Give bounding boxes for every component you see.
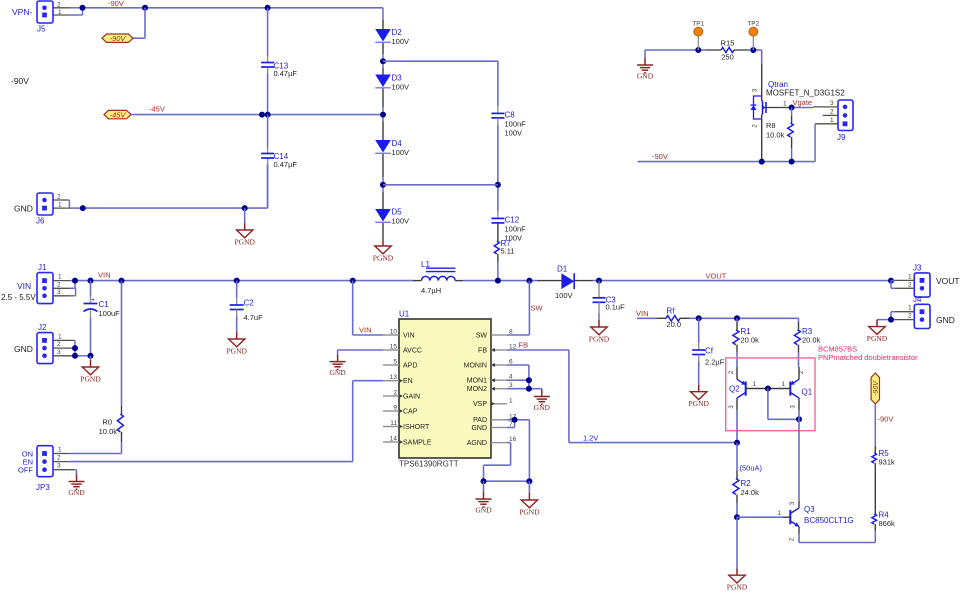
svg-text:PAD: PAD bbox=[473, 417, 487, 424]
net label VIN (U1) bbox=[359, 326, 372, 335]
svg-text:20.0k: 20.0k bbox=[741, 335, 760, 344]
svg-text:TPS61390RGTT: TPS61390RGTT bbox=[399, 460, 459, 469]
svg-text:GND: GND bbox=[68, 488, 85, 497]
svg-text:100V: 100V bbox=[505, 129, 523, 138]
wire JP3 pin1 to R0 bbox=[70, 453, 122, 455]
svg-text:GND: GND bbox=[14, 204, 33, 214]
svg-text:10.0k: 10.0k bbox=[766, 131, 785, 140]
svg-text:10.0k: 10.0k bbox=[99, 427, 118, 436]
svg-text:TP2: TP2 bbox=[747, 21, 759, 28]
svg-text:R15: R15 bbox=[721, 39, 735, 48]
svg-text:1: 1 bbox=[509, 397, 513, 404]
ground PGND (C2) bbox=[226, 332, 247, 355]
connector J4 bbox=[877, 295, 955, 329]
svg-text:J6: J6 bbox=[36, 217, 45, 226]
svg-text:100uF: 100uF bbox=[99, 309, 121, 318]
svg-text:OFF: OFF bbox=[18, 466, 33, 475]
svg-text:VIN: VIN bbox=[17, 281, 31, 291]
svg-text:-90V: -90V bbox=[108, 0, 124, 8]
resistor R8 bbox=[766, 108, 793, 162]
inductor L1 bbox=[413, 260, 463, 295]
wire AGND bbox=[484, 443, 511, 482]
svg-text:R2: R2 bbox=[741, 479, 752, 488]
svg-text:BC850CLT1G: BC850CLT1G bbox=[804, 516, 854, 525]
svg-text:TP1: TP1 bbox=[692, 21, 704, 28]
svg-text:0.47µF: 0.47µF bbox=[274, 160, 298, 169]
svg-text:3: 3 bbox=[57, 289, 61, 296]
wire EN net bbox=[70, 381, 383, 462]
net label FB bbox=[519, 341, 529, 350]
capacitor C2 bbox=[230, 281, 263, 332]
svg-text:1: 1 bbox=[58, 333, 62, 340]
svg-text:3: 3 bbox=[830, 100, 834, 107]
test point TP1 bbox=[692, 21, 704, 51]
resistor R5 bbox=[872, 404, 895, 514]
wire -90V rail (mosfet) bbox=[638, 159, 816, 165]
svg-text:VIN: VIN bbox=[359, 326, 372, 335]
svg-text:FB: FB bbox=[478, 347, 487, 354]
svg-text:Cf: Cf bbox=[705, 347, 714, 356]
capacitor C13 bbox=[261, 62, 297, 79]
svg-text:PGND: PGND bbox=[226, 346, 247, 355]
svg-text:PGND: PGND bbox=[589, 334, 610, 343]
svg-text:C2: C2 bbox=[244, 299, 255, 308]
ground GND (JP3) bbox=[68, 470, 85, 497]
svg-text:VPN-: VPN- bbox=[12, 7, 32, 17]
svg-text:2: 2 bbox=[57, 341, 61, 348]
svg-text:100V: 100V bbox=[392, 83, 410, 92]
svg-text:GAIN: GAIN bbox=[403, 393, 420, 400]
svg-text:GND: GND bbox=[637, 71, 654, 80]
power flag -90V (divider) bbox=[871, 373, 880, 404]
ground PGND (R2) bbox=[727, 517, 748, 591]
svg-text:VOUT: VOUT bbox=[936, 276, 960, 286]
svg-text:2: 2 bbox=[830, 108, 834, 115]
wire Rf row bbox=[696, 315, 799, 321]
svg-text:866k: 866k bbox=[879, 519, 896, 528]
svg-text:100V: 100V bbox=[392, 217, 410, 226]
wire PAD/GND7 bbox=[507, 417, 529, 481]
wire diode chain column bbox=[380, 8, 386, 239]
svg-text:MOSFET_N_D3G1S2: MOSFET_N_D3G1S2 bbox=[766, 89, 845, 98]
svg-text:0.47µF: 0.47µF bbox=[274, 69, 298, 78]
svg-text:250: 250 bbox=[721, 53, 734, 62]
ground PGND (J4) bbox=[867, 320, 888, 343]
resistor R7 bbox=[494, 223, 514, 281]
svg-text:1: 1 bbox=[782, 381, 786, 388]
text -90V bbox=[11, 76, 29, 86]
svg-text:SAMPLE: SAMPLE bbox=[403, 439, 432, 446]
svg-text:-90V: -90V bbox=[110, 34, 127, 43]
diode D2 bbox=[375, 28, 409, 46]
svg-text:5.11: 5.11 bbox=[501, 247, 515, 256]
ground GND (AGND) bbox=[475, 492, 492, 514]
svg-text:-90V: -90V bbox=[652, 152, 668, 161]
svg-text:-90V: -90V bbox=[873, 380, 880, 396]
svg-text:Rf: Rf bbox=[667, 306, 676, 315]
net label SW bbox=[531, 304, 544, 313]
svg-text:U1: U1 bbox=[399, 310, 410, 319]
svg-text:AGND: AGND bbox=[467, 440, 487, 447]
wire -90V top rail bbox=[80, 5, 384, 11]
svg-text:100nF: 100nF bbox=[505, 225, 527, 234]
svg-text:L1: L1 bbox=[421, 260, 430, 269]
svg-text:(50uA): (50uA) bbox=[740, 464, 763, 473]
ground PGND (C1/J2) bbox=[80, 356, 101, 384]
ground PGND (Cf) bbox=[688, 385, 709, 408]
transistor Q1 bbox=[768, 367, 813, 411]
svg-text:-45V: -45V bbox=[149, 105, 165, 114]
svg-text:1: 1 bbox=[908, 305, 912, 312]
svg-text:D2: D2 bbox=[392, 28, 403, 37]
net label -90V (rail) bbox=[652, 152, 668, 161]
svg-text:PNPmatched doubletransistor: PNPmatched doubletransistor bbox=[818, 353, 918, 362]
diode D1 bbox=[555, 264, 574, 300]
connector J2 bbox=[14, 323, 94, 364]
svg-text:1: 1 bbox=[753, 381, 757, 388]
transistor Qtran MOSFET bbox=[751, 80, 846, 162]
svg-text:CAP: CAP bbox=[403, 408, 418, 415]
resistor R4 bbox=[872, 511, 895, 543]
connector J6 bbox=[14, 193, 83, 226]
svg-text:2: 2 bbox=[908, 281, 912, 288]
svg-text:4.7uF: 4.7uF bbox=[244, 313, 264, 322]
svg-text:100V: 100V bbox=[555, 291, 573, 300]
svg-text:2: 2 bbox=[57, 2, 61, 9]
power flag -45V bbox=[104, 110, 131, 119]
svg-text:PGND: PGND bbox=[867, 334, 888, 343]
svg-text:J9: J9 bbox=[837, 133, 846, 142]
ground PGND (C3) bbox=[589, 320, 610, 343]
capacitor Cf bbox=[692, 318, 725, 384]
svg-text:+: + bbox=[91, 297, 95, 304]
svg-text:931k: 931k bbox=[879, 458, 896, 467]
svg-text:GND: GND bbox=[14, 344, 33, 354]
svg-text:MON1: MON1 bbox=[467, 378, 487, 385]
svg-text:10: 10 bbox=[390, 329, 398, 336]
resistor R1 bbox=[733, 318, 759, 367]
wire C8 to C12 bbox=[495, 118, 501, 218]
svg-text:15: 15 bbox=[390, 344, 398, 351]
svg-text:D3: D3 bbox=[392, 74, 403, 83]
svg-text:JP3: JP3 bbox=[36, 483, 50, 492]
wire D2-D3 tap to C8 bbox=[383, 61, 498, 113]
svg-text:100nF: 100nF bbox=[505, 120, 527, 129]
svg-text:AVCC: AVCC bbox=[403, 347, 422, 354]
svg-text:100V: 100V bbox=[392, 148, 410, 157]
net label 1.2V bbox=[583, 434, 598, 443]
svg-text:D5: D5 bbox=[392, 208, 403, 217]
transistor Q2 bbox=[729, 367, 768, 411]
svg-text:VIN: VIN bbox=[636, 309, 649, 318]
svg-text:FB: FB bbox=[519, 341, 529, 350]
svg-text:GND: GND bbox=[475, 505, 492, 514]
ground PGND (J6 rail) bbox=[234, 208, 255, 246]
net label -90V (divider) bbox=[878, 415, 894, 424]
svg-text:3: 3 bbox=[57, 349, 61, 356]
net label VIN (Rf) bbox=[636, 309, 649, 318]
svg-text:D1: D1 bbox=[557, 264, 568, 273]
ground GND (TP rail) bbox=[637, 50, 654, 80]
svg-text:J4: J4 bbox=[913, 295, 922, 304]
svg-text:1: 1 bbox=[908, 273, 912, 280]
svg-text:C12: C12 bbox=[505, 216, 520, 225]
svg-text:MONIN: MONIN bbox=[464, 362, 487, 369]
ground GND (AVCC) bbox=[329, 350, 383, 377]
svg-text:4.7µH: 4.7µH bbox=[421, 286, 441, 295]
svg-text:-45V: -45V bbox=[110, 110, 127, 119]
wire GND rail to C14 bbox=[80, 165, 268, 212]
svg-text:J5: J5 bbox=[37, 25, 46, 34]
transistor Q3 bbox=[790, 501, 854, 541]
svg-text:-90V: -90V bbox=[878, 415, 894, 424]
svg-text:Q2: Q2 bbox=[729, 385, 740, 394]
ground PGND (PAD) bbox=[519, 493, 540, 516]
svg-text:GND: GND bbox=[471, 425, 487, 432]
connector JP3 bbox=[18, 446, 75, 492]
test point TP2 bbox=[747, 21, 759, 51]
wire VIN row right of L1 bbox=[463, 278, 535, 284]
svg-text:20.0: 20.0 bbox=[667, 320, 682, 329]
svg-text:2: 2 bbox=[908, 313, 912, 320]
wire C14 column bbox=[267, 115, 269, 209]
resistor R2 bbox=[733, 443, 759, 518]
svg-text:VSP: VSP bbox=[473, 401, 487, 408]
svg-text:ISHORT: ISHORT bbox=[403, 424, 430, 431]
svg-text:1: 1 bbox=[783, 101, 787, 108]
svg-text:24.0k: 24.0k bbox=[741, 488, 760, 497]
wire C13 column bbox=[267, 8, 269, 115]
svg-text:2.2µF: 2.2µF bbox=[705, 358, 725, 367]
wire Q3 emitter to R4 bbox=[799, 534, 875, 543]
text BCM857BS bbox=[818, 345, 918, 362]
svg-text:EN: EN bbox=[403, 378, 413, 385]
net label -90V bbox=[108, 0, 124, 8]
capacitor C8 bbox=[491, 111, 526, 138]
connector J3 bbox=[891, 264, 960, 298]
box matched pair bbox=[726, 358, 815, 431]
svg-text:14: 14 bbox=[390, 436, 398, 443]
wire TP rail bbox=[645, 47, 762, 96]
svg-text:PGND: PGND bbox=[519, 507, 540, 516]
svg-text:PGND: PGND bbox=[373, 253, 394, 262]
diode D4 bbox=[375, 139, 409, 157]
resistor R0 bbox=[99, 281, 124, 454]
resistor R3 bbox=[794, 318, 820, 367]
svg-text:PGND: PGND bbox=[727, 583, 748, 592]
svg-text:1: 1 bbox=[58, 274, 62, 281]
svg-text:20.0k: 20.0k bbox=[802, 335, 821, 344]
svg-text:PGND: PGND bbox=[80, 374, 101, 383]
svg-text:2: 2 bbox=[57, 281, 61, 288]
svg-text:-90V: -90V bbox=[11, 76, 29, 86]
svg-text:1: 1 bbox=[58, 9, 62, 16]
capacitor C14 bbox=[261, 152, 297, 169]
text (50uA) bbox=[740, 464, 763, 473]
net label VIN bbox=[98, 271, 111, 280]
svg-text:3: 3 bbox=[57, 463, 61, 470]
svg-text:2: 2 bbox=[393, 390, 397, 397]
svg-text:J2: J2 bbox=[38, 323, 47, 332]
svg-text:2: 2 bbox=[57, 455, 61, 462]
svg-text:0.1uF: 0.1uF bbox=[606, 303, 626, 312]
svg-text:1: 1 bbox=[777, 510, 781, 517]
wire SW net bbox=[507, 281, 529, 335]
svg-text:MON2: MON2 bbox=[467, 386, 487, 393]
wire D4-D5 tap bbox=[383, 184, 498, 186]
svg-text:11: 11 bbox=[390, 420, 397, 427]
resistor R15 bbox=[721, 39, 735, 62]
diode D3 bbox=[375, 74, 409, 92]
svg-text:C8: C8 bbox=[505, 111, 516, 120]
wire SW to D1 bbox=[535, 280, 561, 282]
net label -45V bbox=[149, 105, 165, 114]
svg-text:9: 9 bbox=[393, 405, 397, 412]
resistor Rf bbox=[637, 306, 699, 329]
svg-text:Vgate: Vgate bbox=[793, 98, 813, 107]
connector J1 bbox=[1, 263, 76, 304]
wire Q2 collector to 1.2V bbox=[734, 411, 740, 446]
wire ground tie bbox=[481, 478, 533, 493]
wire R2 to Q3 base bbox=[734, 510, 790, 520]
ground PGND (diode chain) bbox=[373, 239, 394, 262]
capacitor C3 bbox=[593, 281, 626, 320]
wire Q1 collector down bbox=[798, 411, 800, 501]
wire -45V rail bbox=[131, 112, 383, 118]
wire base tie bbox=[765, 386, 802, 423]
wire VOUT row bbox=[574, 278, 894, 284]
wire to -90V flag bbox=[133, 8, 145, 38]
svg-text:5: 5 bbox=[393, 359, 397, 366]
svg-text:J3: J3 bbox=[913, 264, 922, 273]
svg-text:PGND: PGND bbox=[234, 237, 255, 246]
svg-text:Q3: Q3 bbox=[804, 505, 815, 514]
svg-text:VIN: VIN bbox=[98, 271, 111, 280]
wire VIN to U1 bbox=[353, 281, 383, 335]
connector J9 bbox=[814, 100, 854, 162]
svg-text:2: 2 bbox=[57, 194, 61, 201]
wire VIN row left bbox=[72, 278, 413, 284]
svg-text:GND: GND bbox=[329, 368, 346, 377]
net Vgate bbox=[783, 98, 814, 111]
diode D5 bbox=[375, 208, 409, 226]
svg-text:VOUT: VOUT bbox=[706, 271, 727, 280]
svg-text:SW: SW bbox=[476, 332, 488, 339]
svg-text:1: 1 bbox=[58, 447, 62, 454]
svg-text:D4: D4 bbox=[392, 139, 403, 148]
wire FB net bbox=[507, 350, 737, 443]
svg-text:13: 13 bbox=[390, 374, 398, 381]
svg-text:R0: R0 bbox=[102, 418, 112, 427]
svg-text:C1: C1 bbox=[99, 300, 110, 309]
svg-text:GND: GND bbox=[936, 315, 955, 325]
svg-text:SW: SW bbox=[531, 304, 544, 313]
svg-text:R8: R8 bbox=[766, 121, 776, 130]
svg-text:J1: J1 bbox=[38, 263, 47, 272]
svg-text:GND: GND bbox=[534, 403, 551, 412]
svg-text:PGND: PGND bbox=[688, 399, 709, 408]
svg-text:APD: APD bbox=[403, 362, 417, 369]
power flag -90V bbox=[102, 34, 133, 43]
svg-text:1.2V: 1.2V bbox=[583, 434, 598, 443]
svg-text:Q1: Q1 bbox=[802, 388, 813, 397]
op-amp U1 TPS61390RGTT bbox=[383, 310, 517, 469]
svg-text:VIN: VIN bbox=[403, 332, 415, 339]
ground GND (MON) bbox=[534, 390, 551, 412]
capacitor C12 bbox=[491, 216, 526, 243]
svg-text:2.5 - 5.5V: 2.5 - 5.5V bbox=[1, 293, 36, 302]
capacitor C1 bbox=[84, 281, 121, 356]
connector J5 bbox=[12, 1, 83, 34]
svg-text:100V: 100V bbox=[392, 37, 410, 46]
svg-text:1: 1 bbox=[58, 202, 62, 209]
wire MONIN/MON1/MON2 bbox=[507, 365, 542, 392]
net label VOUT bbox=[706, 271, 727, 280]
svg-text:1: 1 bbox=[830, 117, 834, 124]
